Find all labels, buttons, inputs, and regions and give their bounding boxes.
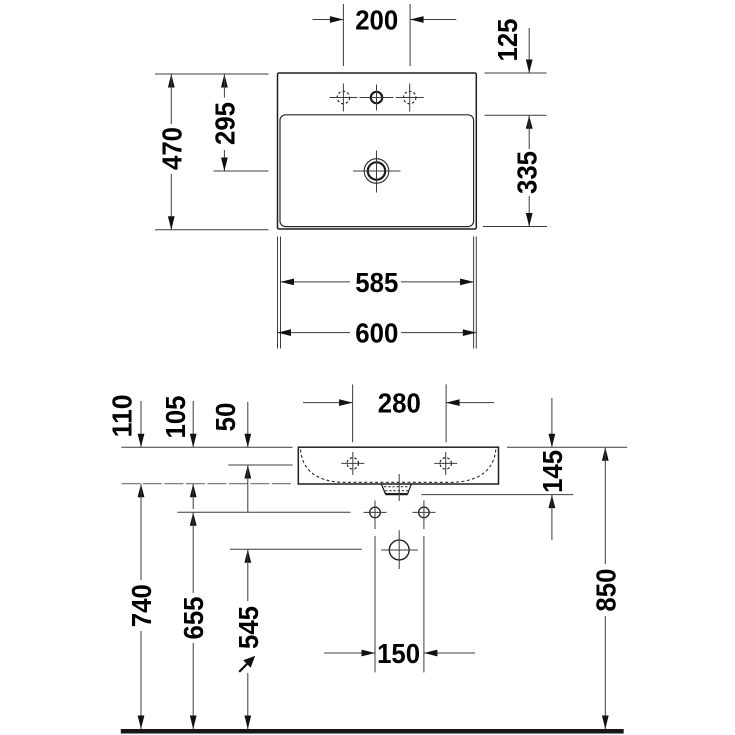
dimension 740 — [140, 484, 142, 580]
svg-text:740: 740 — [126, 584, 157, 627]
mounting bolt hole left (front view) — [364, 500, 387, 529]
svg-text:105: 105 — [160, 396, 191, 439]
dimension 150 extension lines — [374, 536, 376, 672]
bowl interior dashed curve (front view) — [301, 450, 496, 483]
svg-text:545: 545 — [233, 606, 264, 649]
basin inner bowl rim (top view) — [280, 115, 474, 227]
svg-text:200: 200 — [355, 5, 398, 36]
dimension 280 extension lines — [352, 384, 354, 442]
svg-text:850: 850 — [590, 569, 621, 612]
svg-text:125: 125 — [492, 19, 523, 62]
dimension 150 arrows — [324, 652, 375, 654]
dimension 200 extension lines — [342, 4, 344, 66]
dimension 280 arrows — [303, 402, 353, 404]
adjustable-height flag arrow — [239, 662, 249, 672]
dimension 125 stem and arrow — [528, 28, 530, 73]
basin body (front view) — [298, 447, 498, 484]
svg-text:295: 295 — [209, 102, 240, 145]
svg-text:150: 150 — [377, 638, 420, 669]
extension line inner rim top right — [485, 114, 547, 116]
extension line basin top left — [155, 73, 269, 75]
extension line basin top right (front view) — [507, 446, 627, 448]
extension line basin bottom left (gray) — [121, 483, 292, 485]
dimension 50 bottom arrow — [244, 465, 251, 479]
dimension 105 top stem — [192, 401, 194, 447]
svg-text:145: 145 — [537, 450, 568, 493]
svg-text:655: 655 — [178, 597, 209, 640]
extension lines below basin (585/600) — [277, 237, 279, 349]
extension line at 50 below rim — [228, 464, 292, 466]
faucet hole right (dashed, top view) — [396, 84, 424, 112]
svg-text:335: 335 — [511, 151, 542, 194]
center axis line through trap — [398, 474, 400, 501]
extension line drain level left — [214, 170, 269, 172]
dimension 470 — [168, 74, 175, 88]
svg-text:280: 280 — [378, 388, 421, 419]
dimension 110 bottom / 740 top arrow — [138, 484, 145, 498]
faucet hole left (dashed, top view) — [329, 84, 357, 112]
dimension 50 top stem — [247, 402, 249, 447]
dimension 585 — [281, 281, 351, 283]
dimension 545 — [244, 549, 251, 563]
drain trap fitting below basin — [382, 484, 412, 494]
dimension 105 bottom arrow — [190, 484, 197, 498]
dimension 655 — [190, 512, 197, 526]
extension line trap bottom right — [421, 494, 573, 496]
svg-text:110: 110 — [106, 394, 137, 437]
dimension 335 — [526, 115, 533, 129]
dimension 600 — [278, 332, 351, 334]
extension line drain level left — [230, 548, 362, 550]
mounting bolt hole right (front view) — [412, 500, 435, 529]
basin outer rim (top view) — [278, 73, 477, 229]
extension line inner rim bottom right — [483, 226, 547, 228]
siphon drain circle (front view) — [381, 530, 418, 569]
svg-text:585: 585 — [355, 267, 398, 298]
floor line — [121, 729, 624, 734]
drain (top view, double circle) — [353, 151, 401, 193]
dimension 200 arrows — [313, 19, 344, 21]
svg-text:600: 600 — [355, 318, 398, 349]
extension line bolt level left — [177, 511, 350, 513]
faucet hole left (front view, dashed) — [341, 452, 364, 475]
extension line basin top left (front view) — [121, 446, 292, 448]
dimension 850 — [602, 447, 609, 461]
faucet hole center (solid, top view) — [360, 85, 394, 111]
svg-text:50: 50 — [210, 403, 241, 432]
dimension 145 — [551, 398, 553, 447]
dimension 295 — [221, 74, 228, 88]
faucet hole right (front view, dashed) — [434, 452, 457, 475]
extension line basin bottom left — [155, 229, 269, 231]
svg-text:470: 470 — [156, 127, 187, 170]
extension line basin top right — [485, 72, 547, 74]
dimension 110 top stem — [140, 401, 142, 447]
